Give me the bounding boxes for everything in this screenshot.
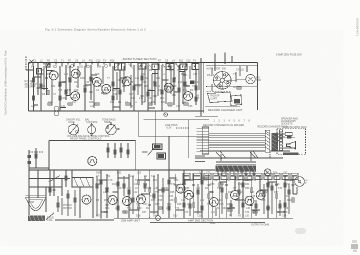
shelf line xyxy=(206,85,258,87)
transistor Q4 xyxy=(92,77,101,86)
electrolytic cap dark body xyxy=(190,81,195,85)
transistor Q19 driver xyxy=(88,157,97,166)
molded connector strip (hatched) xyxy=(216,166,257,172)
turntable rotary mechanism xyxy=(214,72,232,90)
amp junction dots xyxy=(100,169,293,218)
left vertical trunk xyxy=(28,150,30,215)
transistor Q9 xyxy=(82,195,91,204)
transistor Q5 xyxy=(102,84,111,93)
mid horizontal wires xyxy=(144,119,210,121)
transistor Q2 xyxy=(71,69,80,78)
amp gap fillers xyxy=(58,176,289,216)
changer plug ladder xyxy=(195,116,218,118)
speed selector box xyxy=(231,95,242,106)
pickup cartridge xyxy=(208,92,233,103)
amp bottom rails xyxy=(55,219,114,221)
changer cable bus xyxy=(209,133,265,147)
main speaker xyxy=(26,195,47,197)
transistor Q3 xyxy=(71,92,80,101)
inner small box xyxy=(285,133,292,136)
transistor Q8 xyxy=(184,92,193,101)
switches xyxy=(49,176,60,182)
transistor Q10 xyxy=(108,196,117,205)
pin number row xyxy=(214,120,251,123)
faint bottom smudge xyxy=(295,228,306,234)
junction dots xyxy=(33,62,180,112)
transistor Q1 xyxy=(49,71,58,80)
bottom-right page mark xyxy=(351,240,358,252)
tone network resistors xyxy=(107,148,109,152)
resistor group R61-R88 amp xyxy=(100,180,102,184)
transistor Q13 xyxy=(176,184,185,193)
speaker magnet (hatched) xyxy=(28,215,45,221)
tuner interconnect jogs xyxy=(34,71,191,109)
pilot lamp xyxy=(264,169,271,176)
tuner left edge wire xyxy=(28,63,30,112)
bottom hatched bar xyxy=(283,152,299,155)
output transformer xyxy=(72,178,93,188)
wires right of plug xyxy=(270,134,291,158)
terminal strip inside xyxy=(280,130,283,150)
scan grain overlay xyxy=(0,0,1,1)
amp top rail xyxy=(29,169,215,171)
tuner top rail xyxy=(29,62,258,64)
amp terminal label boxes row xyxy=(183,173,298,179)
transistor Q12 xyxy=(137,195,146,204)
transistor Q16 xyxy=(231,191,240,200)
ground terminal G1 xyxy=(156,216,161,221)
transistor Q14 xyxy=(184,190,193,199)
speaker icon xyxy=(287,142,296,150)
accessory dashed box xyxy=(277,128,306,154)
FM antenna input xyxy=(26,57,34,71)
potentiometer VR2 balance xyxy=(88,123,96,136)
potentiometer VR3 tone xyxy=(106,122,119,135)
IF transformer cans along rail xyxy=(37,63,200,74)
transistor Q6 xyxy=(122,77,131,86)
wires above enclosure xyxy=(214,54,216,72)
variable cap arrows xyxy=(45,64,170,68)
enclosure bottom xyxy=(205,105,240,107)
speaker cable bus xyxy=(216,151,258,164)
transistor Q18 xyxy=(256,190,265,199)
amp vertical wires xyxy=(38,170,293,218)
extra light verticals xyxy=(44,63,199,109)
changer enclosure edges xyxy=(203,63,257,113)
power switch boxes xyxy=(153,144,163,150)
transistor Q11 xyxy=(123,197,132,206)
tuner small label texture xyxy=(31,66,200,109)
mid-left small parts xyxy=(29,151,44,153)
resistor group R1-R23 tuner xyxy=(33,78,35,82)
transistor Q7 xyxy=(164,83,173,92)
motor xyxy=(246,74,255,83)
changer plug (hatched) xyxy=(265,130,270,152)
long rails xyxy=(200,150,290,152)
potentiometer VR1 volume xyxy=(68,122,78,135)
top rail connection ticks xyxy=(33,63,186,68)
left lines xyxy=(29,186,62,188)
phone jack xyxy=(295,177,305,187)
amp small label texture xyxy=(96,172,295,218)
test point circles xyxy=(54,106,58,110)
amp interconnect jogs xyxy=(101,178,293,212)
transistor Q15 xyxy=(209,198,218,207)
tuner vertical wires xyxy=(34,58,202,116)
top band small marks xyxy=(54,64,179,69)
tuner bottom rail xyxy=(29,110,205,112)
rail under pots xyxy=(49,140,136,142)
transistor Q17 xyxy=(245,196,254,205)
phono jack small circle xyxy=(164,113,168,117)
